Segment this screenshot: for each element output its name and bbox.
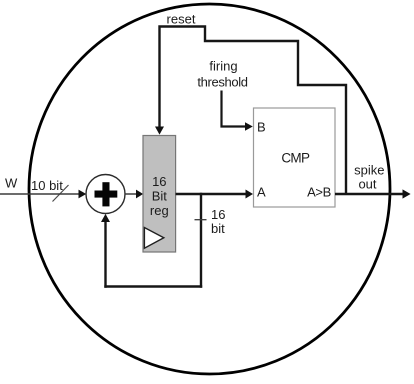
label 16 bit: [211, 207, 225, 236]
svg-text:firing: firing: [209, 59, 237, 74]
comparator CMP: [254, 108, 336, 207]
bus tick mark 16 bit: [195, 219, 207, 221]
label W (input net W): [5, 176, 18, 191]
feedback wire bottom horizontal: [104, 285, 202, 287]
clock input triangle of register: [144, 228, 163, 249]
svg-text:spike: spike: [354, 163, 384, 178]
label spike out: [354, 163, 384, 192]
adder U1 (summing junction): [86, 175, 125, 214]
svg-text:reset: reset: [167, 12, 196, 27]
svg-text:bit: bit: [211, 221, 225, 236]
bus-width slash on W input: [53, 185, 69, 202]
label firing threshold: [197, 59, 247, 90]
svg-text:out: out: [358, 177, 376, 192]
label reset: [167, 12, 196, 27]
wire spike out from comparator A>B: [335, 189, 411, 198]
feedback wire up into adder bottom: [101, 214, 110, 288]
svg-text:threshold: threshold: [197, 75, 247, 90]
wire register output to comparator A input (16-bit bus): [176, 190, 253, 199]
wire W input to adder: [0, 190, 86, 199]
svg-text:W: W: [5, 176, 18, 191]
wire firing threshold to comparator B input: [222, 91, 253, 131]
register REG1: 16 bit reg: [143, 136, 176, 253]
svg-text:10 bit: 10 bit: [31, 178, 63, 193]
wire adder to register: [125, 190, 143, 199]
svg-text:Bit: Bit: [152, 189, 168, 204]
svg-text:16: 16: [211, 207, 225, 222]
svg-text:A: A: [257, 185, 266, 200]
svg-text:A>B: A>B: [307, 185, 331, 200]
svg-text:CMP: CMP: [281, 151, 310, 166]
wire 16-bit bus vertical down (node at x=201): [200, 193, 202, 288]
reset wire from spike-out node to register clock/reset top: [155, 27, 346, 195]
svg-text:B: B: [257, 120, 266, 135]
label 10 bit (bus width): [31, 178, 63, 193]
svg-text:reg: reg: [150, 203, 169, 218]
svg-text:16: 16: [152, 174, 166, 189]
